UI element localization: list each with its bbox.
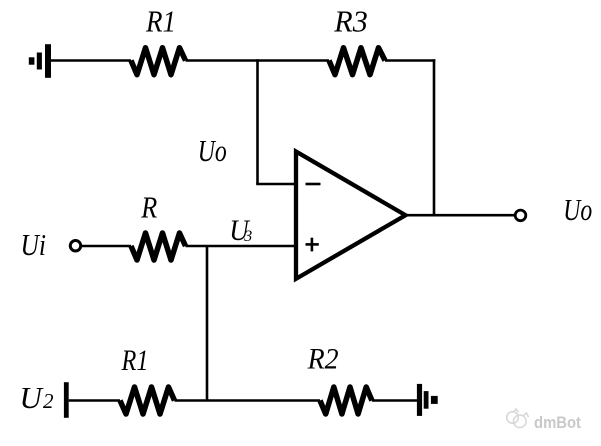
svg-text:3: 3 xyxy=(243,228,252,245)
wire vertical R3 down to output net xyxy=(433,59,436,215)
label U3 (node) xyxy=(229,215,252,247)
resistor R2 xyxy=(320,387,372,414)
wire op-amp output xyxy=(406,214,515,217)
terminal output (open circle) xyxy=(515,210,526,221)
resistor R1 (top) xyxy=(131,48,186,75)
op-amp plus sign xyxy=(306,238,319,252)
wire feedback vertical xyxy=(256,59,259,184)
svg-text:U: U xyxy=(20,380,45,415)
ground GND1 (left, rotated) xyxy=(29,44,51,78)
svg-text:R1: R1 xyxy=(145,3,176,38)
wire Ui to R xyxy=(82,245,131,248)
wire R1 to R2 xyxy=(175,399,321,402)
svg-text:2: 2 xyxy=(43,389,54,413)
resistor R xyxy=(131,233,186,260)
op-amp U1 xyxy=(296,152,406,279)
terminal bar U2 xyxy=(64,382,69,418)
wire GND1 to R1 xyxy=(51,59,131,62)
wire U3 node down to bottom net xyxy=(206,246,209,401)
wire R3 to output corner xyxy=(385,59,435,62)
wire R2 to GND2 xyxy=(372,399,417,402)
wire R to non-inverting input xyxy=(186,245,299,248)
svg-text:R: R xyxy=(140,190,157,225)
resistor R3 xyxy=(329,48,385,75)
wire U2 to R1 (bottom) xyxy=(69,399,120,402)
wire R1 to R3 xyxy=(186,59,330,62)
svg-text:dmBot: dmBot xyxy=(534,413,581,432)
label U2 xyxy=(20,380,55,415)
watermark logo xyxy=(507,409,529,428)
svg-text:R1: R1 xyxy=(121,344,149,377)
wire feedback to inverting input xyxy=(256,183,298,186)
terminal input Ui (open circle) xyxy=(70,241,80,251)
svg-text:R3: R3 xyxy=(333,3,367,38)
svg-text:Uo: Uo xyxy=(563,192,592,227)
svg-text:Uo: Uo xyxy=(198,133,227,168)
svg-text:R2: R2 xyxy=(307,343,339,376)
svg-text:Ui: Ui xyxy=(21,227,47,262)
resistor R1 (bottom) xyxy=(120,387,175,414)
op-amp minus sign xyxy=(306,183,321,186)
ground GND2 (right, rotated) xyxy=(417,384,438,416)
